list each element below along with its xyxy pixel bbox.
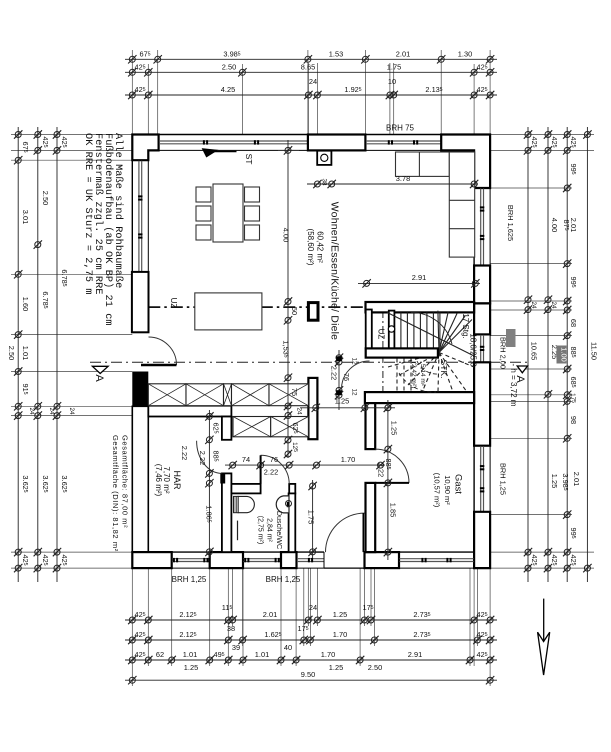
svg-text:24: 24 bbox=[296, 407, 303, 415]
svg-text:ST: ST bbox=[244, 154, 254, 165]
svg-text:1.70: 1.70 bbox=[321, 650, 335, 659]
svg-text:10: 10 bbox=[388, 77, 396, 86]
svg-text:1.30: 1.30 bbox=[458, 49, 472, 58]
svg-text:BRH 1,625: BRH 1,625 bbox=[506, 205, 515, 241]
svg-text:1.25: 1.25 bbox=[550, 474, 559, 488]
svg-text:24: 24 bbox=[309, 77, 317, 86]
svg-text:1.25: 1.25 bbox=[335, 397, 349, 406]
svg-text:68: 68 bbox=[569, 319, 578, 327]
svg-text:(2,75 m²): (2,75 m²) bbox=[257, 516, 264, 544]
svg-text:60,42 m²: 60,42 m² bbox=[316, 231, 325, 263]
svg-text:1.75: 1.75 bbox=[387, 62, 401, 71]
svg-text:4.00: 4.00 bbox=[282, 228, 291, 242]
svg-text:8.65: 8.65 bbox=[301, 62, 315, 71]
svg-text:2.91: 2.91 bbox=[408, 650, 422, 659]
svg-text:Gesamtfläche: 87,00 m²: Gesamtfläche: 87,00 m² bbox=[121, 435, 130, 528]
svg-text:1.75: 1.75 bbox=[307, 510, 316, 524]
svg-text:2.22: 2.22 bbox=[264, 468, 278, 477]
svg-text:1.70: 1.70 bbox=[341, 455, 355, 464]
svg-text:24: 24 bbox=[550, 301, 557, 309]
svg-text:24: 24 bbox=[48, 407, 55, 415]
svg-text:1.25: 1.25 bbox=[333, 610, 347, 619]
svg-text:38: 38 bbox=[321, 178, 328, 186]
svg-text:1.25: 1.25 bbox=[390, 421, 399, 435]
svg-text:10,90 m²: 10,90 m² bbox=[443, 475, 452, 505]
svg-text:(10,57 m²): (10,57 m²) bbox=[433, 473, 442, 508]
svg-text:11.50: 11.50 bbox=[589, 342, 598, 360]
svg-text:76: 76 bbox=[342, 373, 351, 381]
svg-text:1.60: 1.60 bbox=[21, 297, 30, 311]
svg-text:2.22: 2.22 bbox=[198, 451, 207, 465]
svg-text:1.01: 1.01 bbox=[183, 650, 197, 659]
svg-text:A: A bbox=[93, 374, 105, 382]
svg-text:2,84 m²: 2,84 m² bbox=[266, 518, 273, 542]
svg-text:2.22: 2.22 bbox=[330, 366, 339, 380]
svg-text:(2,42 m²): (2,42 m²) bbox=[410, 362, 417, 388]
svg-text:1.70: 1.70 bbox=[333, 630, 347, 639]
svg-text:(7,46 m²): (7,46 m²) bbox=[154, 464, 163, 497]
svg-text:10.65: 10.65 bbox=[530, 342, 539, 361]
svg-text:STK.: STK. bbox=[439, 360, 449, 379]
svg-text:2.22: 2.22 bbox=[377, 463, 386, 477]
svg-text:1.85: 1.85 bbox=[389, 503, 398, 517]
svg-text:50: 50 bbox=[290, 307, 299, 315]
svg-text:12: 12 bbox=[351, 357, 358, 365]
svg-text:1.00: 1.00 bbox=[560, 347, 569, 361]
svg-text:Gesamtfläche (DIN): 81,82 m²: Gesamtfläche (DIN): 81,82 m² bbox=[111, 435, 120, 552]
svg-text:BRH 1,25: BRH 1,25 bbox=[499, 463, 508, 495]
svg-text:3.78: 3.78 bbox=[396, 174, 410, 183]
svg-text:38: 38 bbox=[227, 624, 235, 633]
svg-text:BRH 1,25: BRH 1,25 bbox=[266, 575, 301, 584]
svg-text:2.50: 2.50 bbox=[41, 191, 50, 205]
svg-text:2.01: 2.01 bbox=[396, 49, 410, 58]
svg-text:2.01: 2.01 bbox=[263, 610, 277, 619]
svg-text:75: 75 bbox=[290, 388, 299, 396]
svg-text:12: 12 bbox=[351, 388, 358, 396]
svg-text:2.01: 2.01 bbox=[569, 218, 578, 232]
svg-text:BRH 75: BRH 75 bbox=[386, 124, 415, 133]
svg-text:4.25: 4.25 bbox=[221, 85, 235, 94]
svg-text:Gast: Gast bbox=[453, 474, 464, 494]
svg-text:24: 24 bbox=[28, 407, 35, 415]
svg-text:24: 24 bbox=[68, 407, 75, 415]
svg-text:1.01: 1.01 bbox=[21, 346, 30, 360]
svg-text:24: 24 bbox=[309, 603, 317, 612]
svg-text:2.50: 2.50 bbox=[7, 346, 16, 360]
svg-text:2.22: 2.22 bbox=[180, 446, 189, 460]
svg-text:OK RRE = UK Sturz = 2,75 m: OK RRE = UK Sturz = 2,75 m bbox=[82, 133, 93, 295]
svg-text:1.01: 1.01 bbox=[255, 650, 269, 659]
svg-text:UZ: UZ bbox=[169, 298, 178, 309]
svg-text:3.01: 3.01 bbox=[21, 210, 30, 224]
svg-text:1.53: 1.53 bbox=[329, 49, 343, 58]
svg-text:Dusche/WC: Dusche/WC bbox=[275, 511, 284, 549]
svg-text:74: 74 bbox=[242, 455, 250, 464]
svg-text:62: 62 bbox=[156, 650, 164, 659]
svg-text:(58,60 m²): (58,60 m²) bbox=[306, 229, 315, 266]
svg-text:2.50: 2.50 bbox=[222, 62, 236, 71]
svg-text:2.91: 2.91 bbox=[412, 273, 426, 282]
svg-text:Wohnen/Essen/Küche/ Diele: Wohnen/Essen/Küche/ Diele bbox=[329, 202, 341, 340]
svg-text:2.01: 2.01 bbox=[572, 472, 581, 486]
svg-text:HAR: HAR bbox=[172, 470, 182, 490]
svg-text:40: 40 bbox=[284, 643, 292, 652]
svg-text:9.50: 9.50 bbox=[301, 670, 315, 679]
svg-text:76: 76 bbox=[270, 455, 278, 464]
svg-text:BRH 1,25: BRH 1,25 bbox=[172, 575, 207, 584]
svg-text:1.25: 1.25 bbox=[184, 663, 198, 672]
svg-text:4.00: 4.00 bbox=[550, 218, 559, 232]
svg-text:98: 98 bbox=[569, 416, 578, 424]
svg-text:24: 24 bbox=[530, 301, 537, 309]
svg-text:18,6/25,8: 18,6/25,8 bbox=[469, 333, 478, 367]
svg-text:5,14 m²: 5,14 m² bbox=[419, 364, 426, 387]
svg-text:39: 39 bbox=[232, 643, 240, 652]
svg-text:UZ: UZ bbox=[377, 329, 386, 340]
svg-text:2.50: 2.50 bbox=[368, 663, 382, 672]
svg-text:1.25: 1.25 bbox=[329, 663, 343, 672]
svg-text:- h = 3,72 m: - h = 3,72 m bbox=[509, 364, 518, 407]
